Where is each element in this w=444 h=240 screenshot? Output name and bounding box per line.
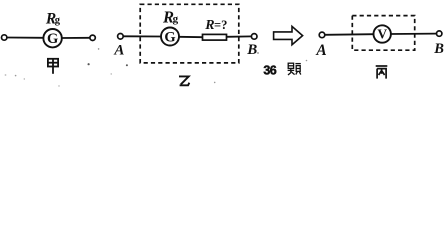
value label Rg (circuit 甲): [45, 10, 61, 27]
caption 甲 (hand-drawn CJK): [48, 59, 58, 74]
block arrow (transform symbol): [274, 26, 303, 44]
problem number text: 题 (hand-drawn CJK): [288, 63, 301, 75]
svg-text:g: g: [173, 13, 179, 25]
scan specks (noise): [5, 48, 308, 87]
wire: [123, 35, 161, 37]
galvanometer G (circuit 甲): [43, 29, 61, 47]
wire: [179, 36, 203, 38]
caption 乙 (hand-drawn CJK): [179, 76, 189, 85]
node A (circuit 丙): [319, 32, 325, 38]
wire: [7, 37, 44, 39]
svg-text:36: 36: [263, 64, 276, 78]
svg-text:g: g: [55, 15, 61, 26]
wire: [391, 33, 436, 35]
svg-text:V: V: [377, 27, 387, 42]
svg-text:G: G: [47, 31, 58, 47]
dashed box (circuit 乙): [140, 4, 239, 63]
svg-text:A: A: [315, 42, 326, 59]
svg-text:G: G: [164, 29, 175, 45]
wire: [325, 33, 374, 36]
wire: [227, 35, 252, 37]
voltmeter V (circuit 丙): [374, 25, 391, 42]
value label Rg (circuit 乙): [162, 7, 179, 26]
node B (circuit 乙): [251, 34, 257, 40]
node: left terminal of circuit 甲: [1, 35, 6, 40]
caption 丙 (hand-drawn CJK): [376, 66, 388, 79]
galvanometer G (circuit 乙): [161, 28, 179, 46]
svg-text:R: R: [204, 18, 214, 33]
node: right terminal of circuit 甲: [90, 35, 95, 40]
dashed box (circuit 丙): [352, 16, 414, 51]
svg-text:A: A: [113, 43, 124, 59]
resistor R=? (circuit 乙): [203, 34, 227, 40]
wire: [62, 37, 90, 39]
svg-text:B: B: [246, 42, 257, 58]
value label R=?: [204, 18, 227, 33]
svg-text:=?: =?: [214, 18, 227, 32]
node B (circuit 丙): [437, 31, 442, 36]
node A (circuit 乙): [118, 34, 124, 40]
svg-text:B: B: [433, 41, 444, 57]
